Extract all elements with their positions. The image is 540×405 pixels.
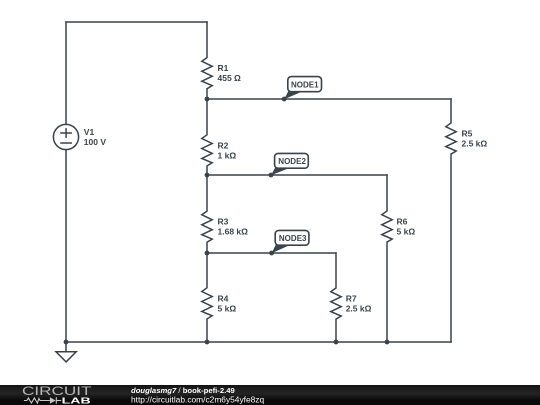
wire bottom bus (66, 341, 451, 343)
resistor R2 (202, 99, 212, 175)
label R1 455 ohm (218, 63, 242, 83)
junction dot ground (64, 340, 69, 345)
svg-text:1.68 kΩ: 1.68 kΩ (218, 227, 249, 237)
label R7 2.5 kohm (346, 294, 372, 314)
resistor R7 (331, 253, 341, 342)
svg-text:455 Ω: 455 Ω (218, 73, 242, 83)
junction dot node2 at R2/R3 (205, 173, 210, 178)
svg-text:2.5 kΩ: 2.5 kΩ (462, 139, 488, 149)
resistor R3 (202, 175, 212, 253)
svg-text:douglasmg7 / book-pefi-2.49: douglasmg7 / book-pefi-2.49 (131, 386, 235, 395)
svg-text:NODE1: NODE1 (291, 79, 319, 89)
svg-text:1 kΩ: 1 kΩ (218, 150, 237, 160)
junction dot R7 bottom (334, 340, 339, 345)
svg-text:R1: R1 (218, 63, 229, 73)
junction dot node1 flag anchor (282, 97, 287, 102)
node flag NODE1 (284, 77, 321, 100)
svg-text:http://circuitlab.com/c2m6y54y: http://circuitlab.com/c2m6y54yfe8zq (131, 395, 264, 405)
resistor R4 (202, 253, 212, 342)
logo diode triangle (50, 397, 56, 404)
ground (56, 342, 76, 362)
wire node3 horizontal (207, 252, 336, 254)
label V1 100 V (84, 127, 107, 147)
label R3 1.68 kohm (218, 217, 249, 237)
wire V1 bottom to ground node (65, 150, 67, 342)
label R2 1 kohm (218, 140, 237, 160)
logo resistor squiggle and diode (24, 397, 61, 404)
voltage source V1 (53, 124, 78, 149)
junction dot node3 flag anchor (269, 251, 274, 256)
svg-text:LAB: LAB (62, 395, 91, 405)
wire node2 horizontal (207, 174, 387, 176)
junction dot R6 bottom (385, 340, 390, 345)
svg-text:5 kΩ: 5 kΩ (218, 303, 237, 313)
svg-text:2.5 kΩ: 2.5 kΩ (346, 304, 372, 314)
svg-text:R4: R4 (218, 293, 229, 303)
svg-text:5 kΩ: 5 kΩ (397, 227, 416, 237)
junction dot R4 bottom (205, 340, 210, 345)
wire top from V1 to R1 (66, 21, 207, 23)
label R6 5 kohm (397, 217, 416, 237)
svg-text:R3: R3 (218, 217, 229, 227)
svg-text:R2: R2 (218, 140, 229, 150)
junction dot node3 at R3/R4 (205, 251, 210, 256)
junction dot node1 at R1/R2 (205, 97, 210, 102)
footer bar (0, 385, 540, 405)
svg-text:NODE2: NODE2 (278, 156, 306, 166)
svg-text:R6: R6 (397, 217, 408, 227)
wire left V1 top (65, 22, 67, 124)
svg-text:NODE3: NODE3 (279, 233, 307, 243)
svg-text:V1: V1 (84, 127, 95, 137)
wire node1 horizontal (207, 98, 451, 100)
resistor R1 (202, 22, 212, 99)
svg-text:R5: R5 (462, 129, 473, 139)
node flag NODE2 (271, 153, 308, 175)
label R5 2.5 kohm (462, 129, 488, 149)
label R4 5 kohm (218, 293, 237, 313)
svg-text:R7: R7 (346, 294, 357, 304)
junction dot node2 flag anchor (269, 173, 274, 178)
svg-text:100 V: 100 V (84, 137, 107, 147)
resistor R5 (446, 99, 456, 342)
resistor R6 (382, 175, 392, 342)
node flag NODE3 (272, 230, 309, 253)
